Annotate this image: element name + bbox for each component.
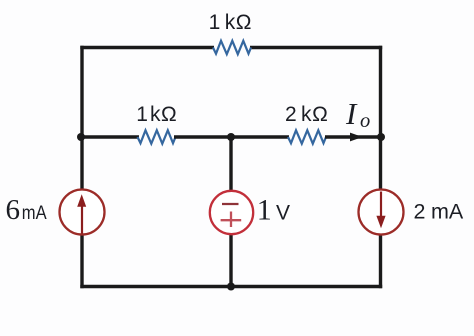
- svg-text:kΩ: kΩ: [301, 103, 328, 126]
- wire middle horizontal: left node to 1k resistor: [81, 135, 139, 138]
- wire top-right horizontal segment: [250, 46, 382, 49]
- resistor R 2 kOhm zigzag: [288, 130, 326, 143]
- wire middle horizontal: 2k resistor to right node: [325, 135, 381, 138]
- svg-text:6: 6: [6, 194, 21, 226]
- svg-text:mA: mA: [431, 200, 464, 224]
- node right-middle junction: [377, 133, 385, 141]
- resistor R middle 1 kOhm zigzag: [138, 130, 176, 143]
- wire middle vertical (1V source to bottom node): [229, 234, 232, 287]
- wire bottom horizontal: [80, 285, 382, 288]
- current arrow Io on wire: [350, 133, 363, 142]
- wire left vertical (top wire to 6mA source): [80, 46, 83, 190]
- wire right vertical (2mA source to bottom): [379, 235, 382, 289]
- svg-text:2: 2: [414, 200, 426, 224]
- voltage source plus sign: [221, 212, 242, 228]
- current source I1 arrow up: [81, 205, 83, 234]
- svg-text:kΩ: kΩ: [150, 103, 177, 126]
- node left-middle junction: [77, 133, 85, 141]
- svg-text:1: 1: [136, 103, 148, 126]
- svg-text:2: 2: [285, 103, 297, 126]
- svg-text:mA: mA: [22, 202, 48, 224]
- wire middle horizontal: 1k resistor to 2k resistor: [174, 135, 289, 138]
- node bottom-center junction: [227, 283, 235, 291]
- svg-text:kΩ: kΩ: [225, 11, 252, 34]
- current source I2 2mA circle: [359, 190, 404, 235]
- wire left vertical (6mA source to bottom wire): [80, 235, 83, 289]
- wire middle vertical (center node to 1V source): [229, 137, 232, 192]
- wire right vertical (top to 2mA source): [379, 46, 382, 190]
- svg-text:1: 1: [209, 11, 221, 34]
- wire top-left horizontal segment: [80, 46, 214, 49]
- svg-text:V: V: [276, 202, 290, 225]
- svg-text:o: o: [360, 110, 370, 132]
- current source I1 6mA circle: [60, 190, 105, 235]
- voltage source minus sign: [222, 203, 239, 205]
- current source I2 arrow down: [380, 192, 382, 221]
- svg-text:1: 1: [257, 194, 272, 227]
- node center-middle junction: [227, 133, 235, 141]
- resistor R top 1 kOhm zigzag: [213, 41, 251, 54]
- svg-text:I: I: [345, 96, 358, 131]
- voltage source V1 1V circle: [210, 191, 253, 234]
